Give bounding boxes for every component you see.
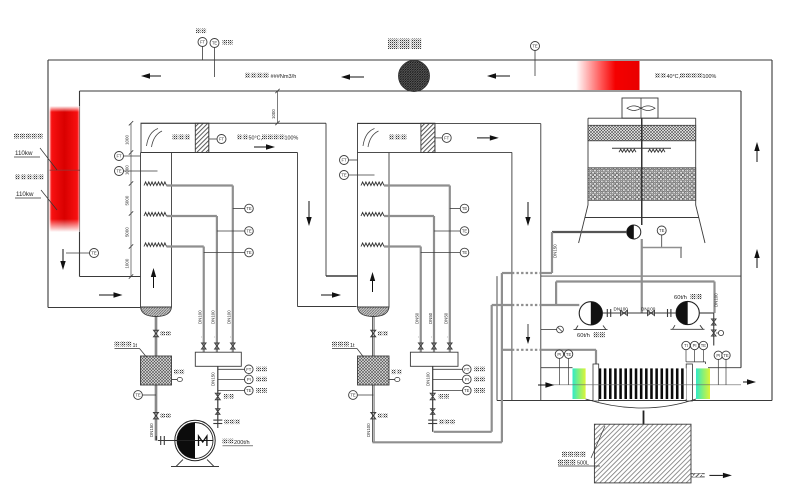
instrument TE basin — [642, 226, 682, 258]
svg-text:DN50: DN50 — [444, 312, 449, 324]
svg-text:TE: TE — [723, 353, 729, 358]
pump P1 60t/h — [574, 302, 608, 340]
instrument TE tower left — [115, 167, 158, 176]
label DN tank outlet — [149, 423, 154, 437]
label air pipe flow text — [245, 73, 296, 80]
check valve discharge — [711, 319, 716, 325]
spray header box — [195, 352, 241, 366]
svg-text:100%: 100% — [285, 136, 299, 142]
spray nozzle row 2 — [361, 212, 384, 216]
svg-text:..: .. — [415, 336, 420, 338]
label temp 50C RH100% tower1 outlet — [237, 135, 298, 142]
svg-text:DN150: DN150 — [210, 372, 215, 386]
tower vessel walls — [141, 153, 172, 308]
valve with actuator — [711, 330, 723, 336]
svg-text:DN100: DN100 — [425, 372, 430, 386]
valve tank outlet — [154, 412, 171, 419]
pipe cooling tower riser — [641, 118, 643, 225]
instrument FT at filter — [435, 133, 451, 142]
svg-text:DN100: DN100 — [198, 310, 203, 324]
svg-text:TE: TE — [659, 228, 665, 233]
arrow airflow top duct mid — [341, 74, 364, 79]
duct tower2 to downcomer2 — [358, 124, 541, 401]
svg-text:..: .. — [198, 336, 203, 338]
svg-text:PI: PI — [247, 377, 251, 382]
hx left color block — [573, 368, 586, 399]
svg-text:TE: TE — [701, 343, 707, 348]
pipe spray feed 1 — [167, 186, 233, 353]
svg-text:1000: 1000 — [125, 258, 130, 268]
heater air-heater red block — [50, 106, 80, 232]
pipe dome drain — [155, 317, 157, 357]
svg-text:DN100: DN100 — [211, 310, 216, 324]
arrow airflow top duct right — [487, 73, 510, 78]
svg-text:200t/h: 200t/h — [234, 440, 250, 446]
svg-text:1000: 1000 — [271, 109, 276, 119]
arrow into hx — [538, 382, 554, 387]
arrow downcomer1 — [306, 201, 311, 226]
arrow bottom duct2 — [321, 292, 341, 297]
svg-text:5000: 5000 — [125, 195, 130, 205]
svg-text:TE: TE — [462, 229, 468, 234]
label DN pipe 1 — [227, 310, 232, 338]
svg-text:FT: FT — [116, 154, 122, 159]
instrument TE level 2 — [217, 227, 253, 236]
valve riser 1 — [231, 343, 236, 349]
valve dome drain — [371, 330, 388, 337]
label DN pipe 3 — [198, 310, 203, 338]
instrument FT top duct — [196, 29, 207, 61]
instrument FT tower left — [340, 156, 358, 165]
arrow up tower1 — [151, 268, 156, 288]
arrow up tower2 — [370, 272, 375, 292]
label air heater 1 110kw — [15, 175, 57, 211]
arrow tank drain — [709, 473, 732, 478]
filter hatch strip — [421, 123, 435, 152]
valve suction 2 — [641, 307, 656, 316]
arrow up right duct 2 — [754, 249, 759, 268]
cooling tower basin and legs — [579, 205, 705, 243]
valve riser 2 — [215, 343, 220, 349]
instrument TE discharge — [218, 386, 267, 395]
tower vessel walls — [358, 153, 390, 308]
hx end plates — [593, 364, 692, 401]
svg-text:110kw: 110kw — [15, 150, 33, 157]
cooling tower fill pack — [588, 168, 696, 201]
svg-text:1000: 1000 — [125, 165, 130, 175]
pipe spray feed 3 — [167, 247, 204, 353]
label tank volume — [115, 342, 147, 358]
svg-text:60t/h: 60t/h — [577, 333, 590, 339]
pipe spray feed 2 — [167, 216, 217, 352]
svg-text:PI: PI — [557, 352, 561, 357]
pipe cw hx crossing — [502, 350, 596, 364]
svg-text:DN50: DN50 — [415, 312, 420, 324]
label DN tank outlet — [366, 423, 371, 437]
svg-text:DN150: DN150 — [553, 244, 558, 258]
duct bottom tower2 inlet — [298, 276, 358, 307]
pipe pump M to tank1 — [155, 436, 157, 441]
svg-text:TE: TE — [135, 393, 141, 398]
cooling tower spray header — [612, 148, 671, 152]
enclosure pump skid box — [497, 276, 772, 400]
spray nozzle row 3 — [144, 243, 167, 247]
svg-text:TE: TE — [116, 169, 122, 174]
svg-text:DN100: DN100 — [227, 310, 232, 324]
instrument PI discharge — [218, 375, 267, 384]
svg-text:DN100: DN100 — [614, 307, 629, 312]
pipe spray feed 2 — [384, 216, 434, 352]
check valve flange — [213, 420, 240, 425]
svg-text:TE: TE — [350, 393, 356, 398]
svg-text:TE: TE — [212, 41, 218, 46]
flange pump1 — [607, 309, 610, 317]
valve basin outlet (half dark) — [627, 225, 641, 239]
svg-text:FT: FT — [200, 40, 206, 45]
instrument pair hx left — [555, 350, 573, 385]
hx center line — [541, 384, 741, 386]
valve small mid — [541, 326, 564, 333]
instrument PI discharge — [433, 375, 485, 384]
instrument TE level 3 — [421, 248, 469, 257]
instrument TE tank outlet — [349, 391, 374, 400]
dished bottom head — [358, 307, 390, 317]
instrument TE discharge — [433, 386, 485, 395]
spray nozzle row 2 — [144, 212, 167, 216]
valve small discharge — [216, 409, 220, 415]
svg-text:..: .. — [428, 336, 433, 338]
arrow tower2 outlet — [477, 135, 499, 140]
hx plate stack — [599, 368, 687, 399]
svg-text:TE: TE — [246, 206, 252, 211]
svg-text:###Nm3/h: ###Nm3/h — [271, 74, 297, 80]
pipe spray feed 3 — [384, 247, 421, 353]
svg-text:1000: 1000 — [125, 135, 130, 145]
flange pump M suction — [158, 436, 175, 445]
pump P2 60t/h — [671, 294, 705, 329]
label DN pipe 2 — [428, 312, 433, 338]
drain nozzle pai wu — [172, 370, 185, 382]
valve tank outlet — [371, 412, 388, 419]
svg-text:TE: TE — [246, 229, 252, 234]
pipe dome drain — [372, 317, 374, 357]
water tank — [358, 356, 390, 385]
label DN head pipe — [425, 372, 430, 386]
fan induced-draft blower — [399, 61, 430, 92]
instrument TE level 2 — [434, 227, 469, 236]
arrow airflow top duct left — [141, 73, 161, 78]
cooling tower fan box — [622, 98, 658, 118]
cooling tower body — [588, 118, 696, 205]
instrument FT discharge — [218, 365, 267, 374]
spray nozzle row 1 — [361, 182, 384, 186]
svg-text:110kw: 110kw — [16, 191, 34, 198]
pipe cw supply crossing — [502, 272, 552, 274]
tower top box with damper — [141, 123, 209, 152]
instrument TE tank outlet — [134, 391, 156, 400]
svg-text:50°C,: 50°C, — [249, 136, 263, 142]
instrument FT at filter — [209, 135, 226, 144]
pipe hx to tank — [643, 411, 645, 425]
filter hatch strip — [195, 123, 208, 152]
svg-text:1t: 1t — [133, 343, 138, 349]
svg-text:TE: TE — [341, 173, 347, 178]
flange pump2 — [668, 309, 671, 317]
arrow tower1 outlet — [254, 144, 275, 149]
svg-text:1t: 1t — [350, 343, 355, 349]
svg-text:TE: TE — [91, 251, 97, 256]
wire main air duct outline — [48, 60, 772, 401]
pipe basin supply main — [552, 232, 627, 273]
valve on discharge — [215, 393, 234, 400]
svg-text:TE: TE — [532, 44, 538, 49]
spray header box — [410, 352, 458, 366]
pipe basin to pumps riser — [641, 239, 643, 313]
instrument TE top duct — [210, 39, 233, 78]
pump M circulation — [171, 420, 219, 466]
label yin feng ji (fan) — [388, 39, 421, 50]
svg-text:PI: PI — [465, 377, 469, 382]
valve small discharge — [431, 409, 435, 415]
pipe header discharge — [217, 366, 219, 420]
pipe pump suction header — [603, 312, 677, 314]
drain nozzle pai wu — [389, 370, 402, 382]
svg-text:FT: FT — [444, 136, 450, 141]
svg-text:..: .. — [444, 336, 449, 338]
svg-text:500L: 500L — [577, 461, 589, 467]
valve suction 1 — [614, 307, 629, 316]
label air heater 2 110kw — [14, 134, 57, 171]
valve dome drain — [154, 330, 171, 337]
valve riser 2 — [432, 343, 437, 349]
pipe pump2 discharge — [699, 313, 713, 346]
label DN pipe 1 — [444, 312, 449, 338]
pipe tank outlet down — [372, 385, 374, 442]
label pump M flow 200t/h — [223, 439, 254, 446]
instrument TE level 1 — [450, 204, 469, 213]
svg-text:40°C,: 40°C, — [667, 74, 681, 80]
pipe header discharge — [432, 366, 434, 432]
svg-text:FT: FT — [246, 367, 252, 372]
svg-text:TE: TE — [462, 206, 468, 211]
label DN head pipe — [210, 372, 215, 386]
pipe spray feed 1 — [384, 186, 450, 353]
svg-text:5000: 5000 — [125, 227, 130, 237]
svg-text:PI: PI — [693, 343, 697, 348]
intermediate water tank 500L — [594, 424, 691, 483]
hx right color block — [696, 368, 710, 399]
cooling tower drift eliminator — [588, 125, 696, 141]
arrow out of hx — [743, 379, 756, 384]
spray nozzle row 3 — [361, 243, 384, 247]
instrument pair far right — [714, 351, 730, 385]
valve riser 1 — [448, 343, 453, 349]
svg-text:..: .. — [227, 336, 232, 338]
pipe cw suction crossing — [492, 304, 580, 306]
svg-text:100%: 100% — [703, 74, 717, 80]
instrument TE tower left — [340, 171, 375, 180]
label tank 500L — [558, 426, 605, 467]
pipe tank outlet down — [155, 385, 157, 441]
svg-text:60t/h: 60t/h — [674, 295, 687, 301]
pipe pump M discharge — [217, 421, 219, 429]
svg-text:TE: TE — [566, 352, 572, 357]
svg-text:PI: PI — [716, 353, 720, 358]
dished bottom head — [141, 307, 172, 317]
valve riser 3 — [201, 343, 206, 349]
instrument TE level 3 — [204, 248, 254, 257]
dim chain tower1 left — [125, 121, 134, 279]
instrument FT tower left — [115, 152, 141, 161]
tower top box with damper — [358, 123, 435, 152]
valve riser 3 — [418, 343, 423, 349]
svg-text:FT: FT — [341, 158, 347, 163]
tank drain nozzle — [691, 474, 705, 477]
svg-text:TE: TE — [462, 250, 468, 255]
water tank — [141, 356, 172, 385]
svg-text:TE: TE — [246, 388, 252, 393]
svg-text:FT: FT — [219, 137, 225, 142]
hx bottom bundle arc — [586, 399, 696, 408]
duct tower1 to downcomer — [141, 123, 327, 306]
svg-text:FT: FT — [464, 367, 470, 372]
svg-text:TI: TI — [684, 343, 688, 348]
instrument trio hx right — [682, 341, 708, 364]
label tank volume — [332, 342, 364, 358]
instrument TE mid top duct — [531, 42, 540, 77]
arrow bottom duct1 — [99, 292, 123, 297]
svg-text:DN100: DN100 — [714, 293, 719, 307]
dim 1000 below duct — [271, 89, 280, 125]
arrow down left duct — [60, 249, 65, 270]
svg-text:DN100: DN100 — [366, 423, 371, 437]
valve on discharge — [430, 393, 449, 400]
svg-text:DN100: DN100 — [641, 307, 656, 312]
label DN pipe 3 — [415, 312, 420, 338]
instrument TE left duct — [66, 249, 99, 258]
label DN pipe 2 — [211, 310, 216, 338]
svg-text:..: .. — [211, 336, 216, 338]
instrument TE level 1 — [233, 204, 254, 213]
arrow up right duct 1 — [754, 142, 759, 162]
pipe pump1 branch upper — [556, 282, 719, 314]
label temp 40C RH 100% — [655, 73, 716, 80]
svg-text:DN50: DN50 — [428, 312, 433, 324]
pipe left risers — [373, 273, 502, 442]
svg-text:DN150: DN150 — [149, 423, 154, 437]
svg-text:TE: TE — [246, 250, 252, 255]
check valve flange — [428, 420, 455, 425]
arrow downcomer2 — [525, 202, 530, 226]
arrow downcomer2 low — [526, 324, 530, 344]
instrument FT discharge — [433, 365, 485, 374]
spray nozzle row 1 — [144, 182, 167, 186]
heated air red zone in top duct — [576, 61, 640, 90]
svg-text:TE: TE — [464, 388, 470, 393]
